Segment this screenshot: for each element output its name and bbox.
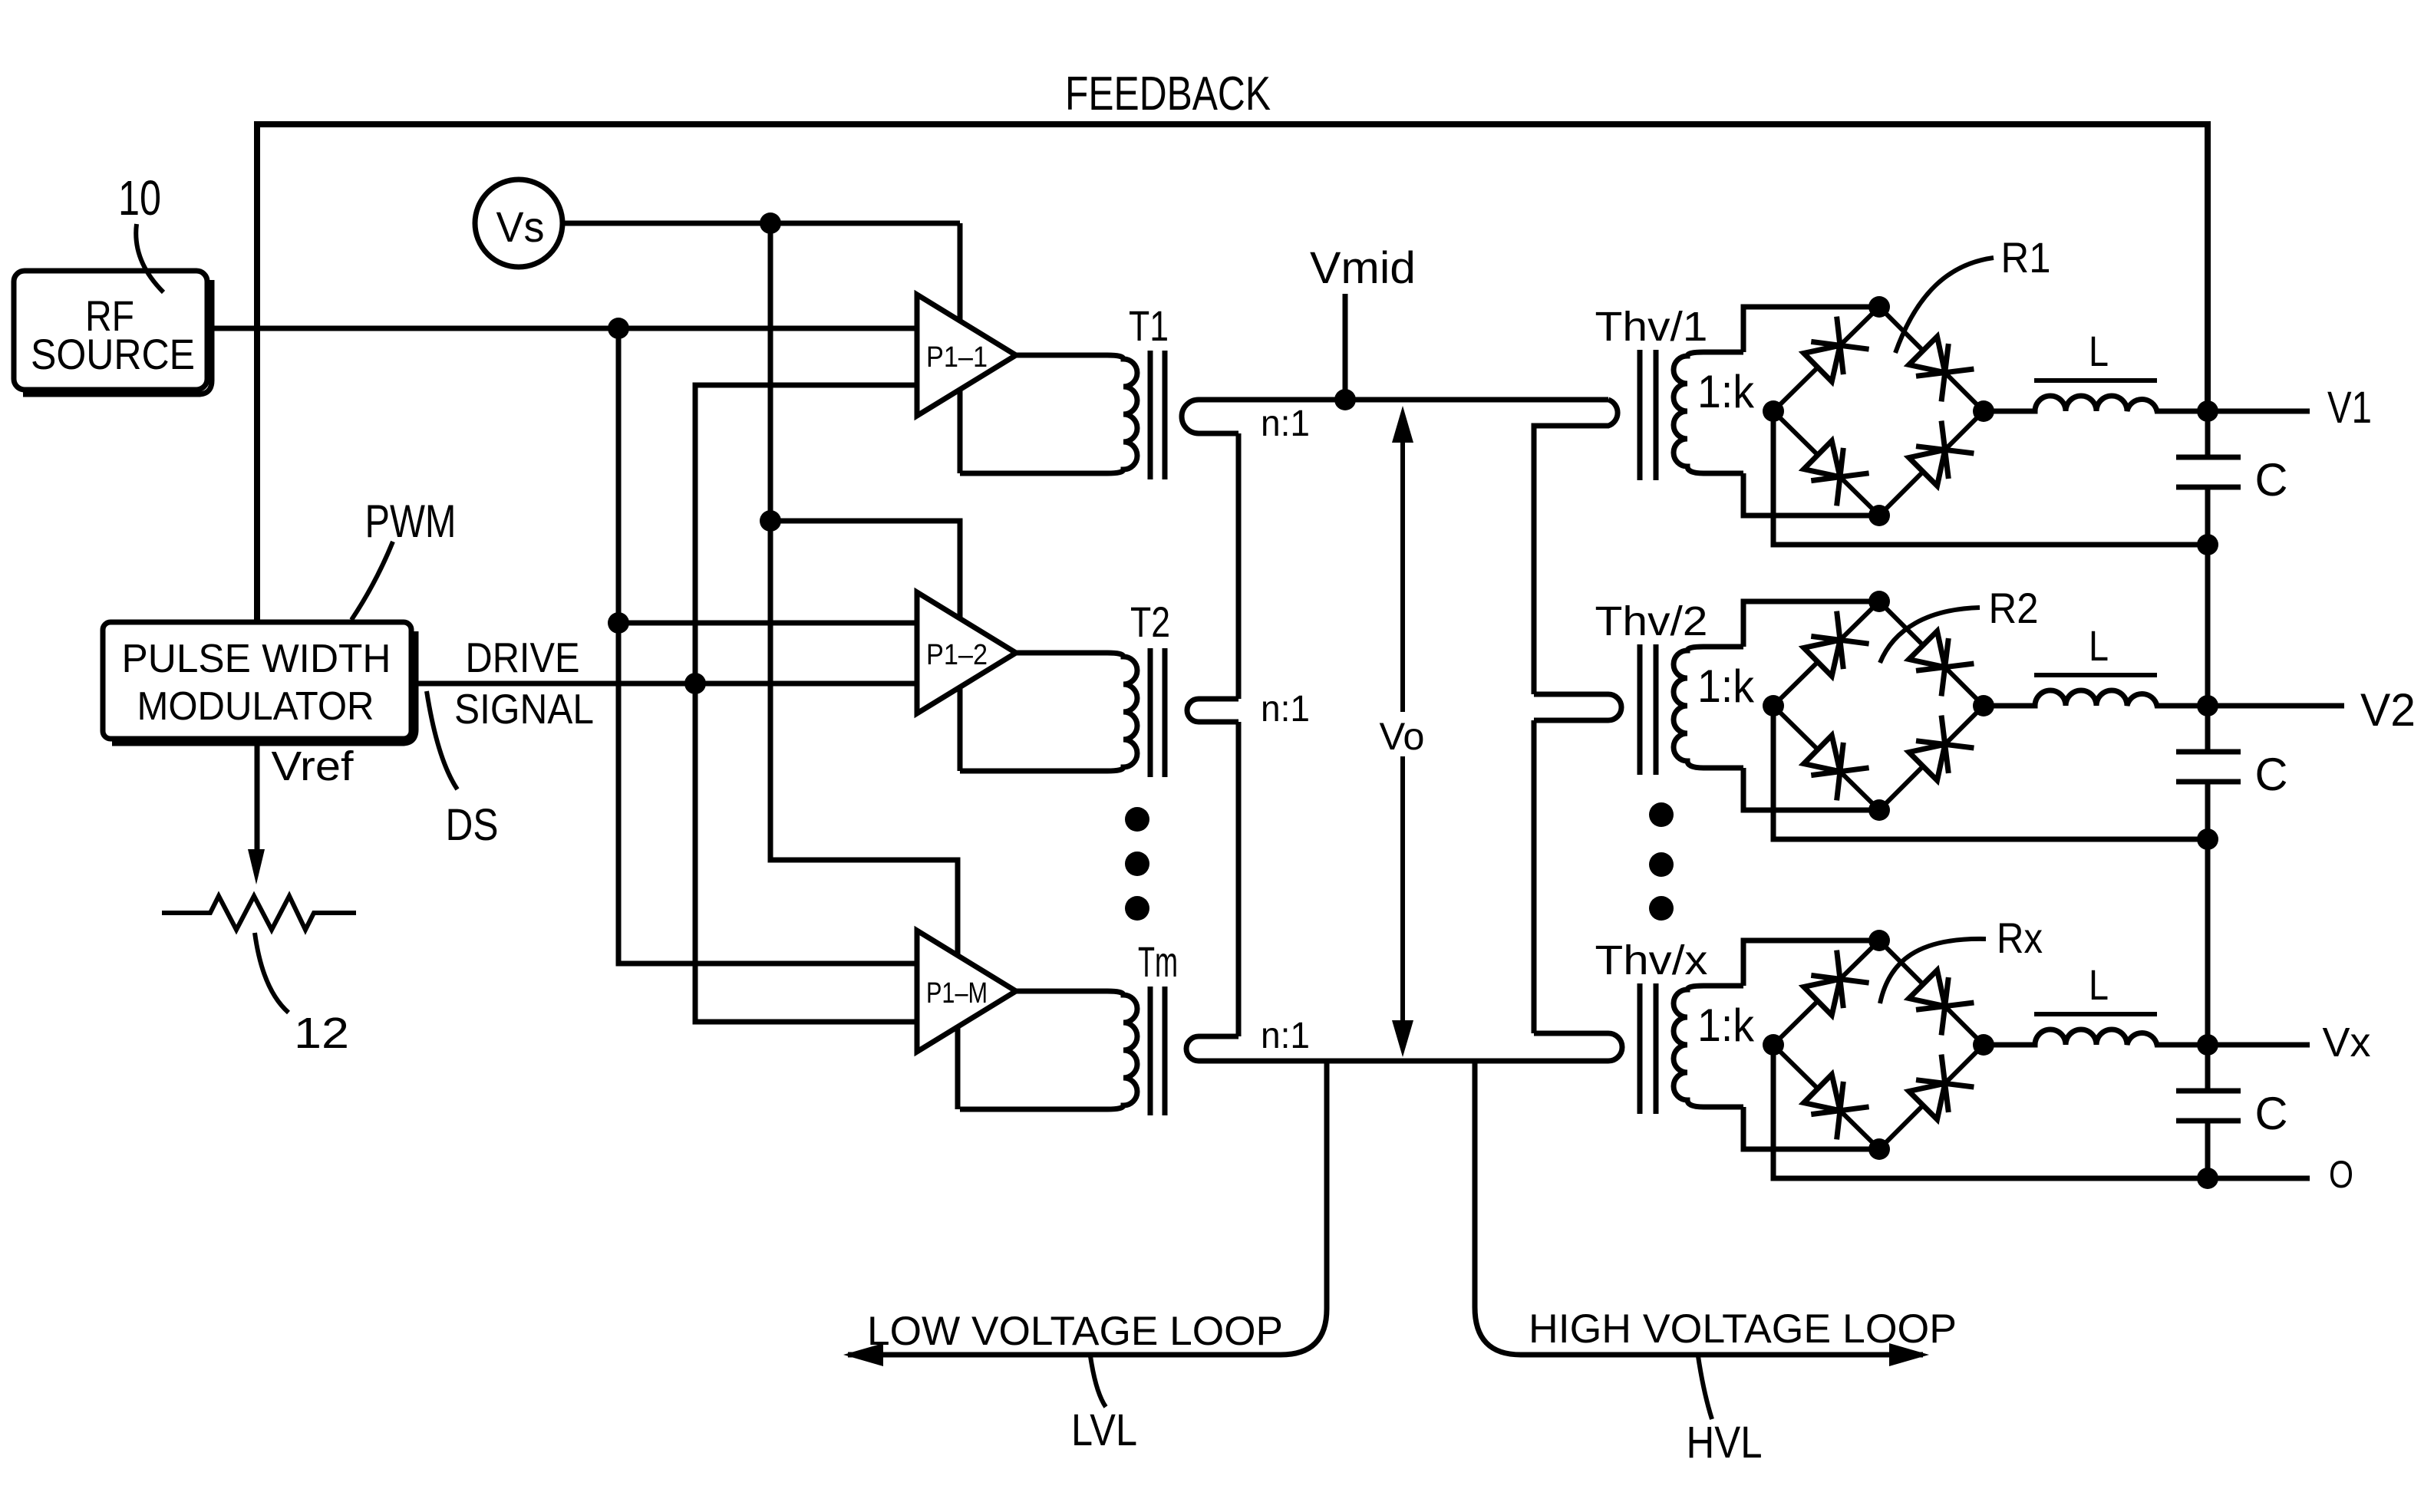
svg-text:P1–1: P1–1 [926, 341, 988, 374]
wire high voltage loop drop [1475, 1061, 1923, 1355]
dimension arrow Vo [1400, 418, 1405, 1045]
label LVL with leader [1090, 1356, 1106, 1407]
transformer Tm core [1148, 987, 1153, 1115]
node Rx right [1973, 1034, 1994, 1056]
node R2 bottom [1868, 799, 1890, 821]
diode D1 of R2 [1804, 640, 1840, 676]
svg-text:LOW VOLTAGE LOOP: LOW VOLTAGE LOOP [867, 1309, 1283, 1354]
op-amp driver P1-M [917, 931, 1016, 1052]
diode D4 of R1 [1909, 450, 1945, 486]
svg-text:Thv/1: Thv/1 [1595, 304, 1708, 350]
node R2 right [1973, 695, 1994, 716]
wire Thv/x secondary top to bridge Rx [1743, 940, 1879, 986]
diode D1 of Rx [1804, 979, 1840, 1015]
wire Vs feed to T1 primary return [770, 223, 960, 473]
transformer Thv/x primary winding (hook) [1327, 1033, 1622, 1061]
transformer Thv/x core [1638, 983, 1643, 1114]
diode D3 of R1 [1804, 441, 1840, 477]
svg-text:Tm: Tm [1138, 937, 1178, 986]
node junction Vx [2197, 1034, 2218, 1056]
wire Thv/1 secondary bottom to bridge R1 [1743, 473, 1879, 516]
svg-text:Vo: Vo [1380, 715, 1425, 758]
svg-text:HIGH VOLTAGE LOOP: HIGH VOLTAGE LOOP [1529, 1306, 1957, 1352]
transformer Thv/2 primary winding (hook) [1534, 694, 1621, 720]
svg-text:Vx: Vx [2323, 1020, 2371, 1066]
svg-text:FEEDBACK: FEEDBACK [1065, 68, 1271, 120]
svg-text:L: L [2089, 960, 2109, 1009]
arrowhead Vref [248, 849, 265, 884]
svg-text:Vmid: Vmid [1310, 243, 1416, 293]
wire Vref from PWM down to resistor [255, 739, 260, 852]
node R2 top [1868, 591, 1890, 612]
svg-text:PWM: PWM [365, 496, 457, 547]
node junction V1 [2197, 400, 2218, 422]
svg-text:HVL: HVL [1687, 1418, 1763, 1468]
svg-text:C: C [2255, 1088, 2288, 1139]
label Rx with leader [1880, 939, 1986, 1003]
svg-text:1:k: 1:k [1697, 366, 1755, 417]
svg-text:C: C [2255, 454, 2288, 506]
arrowhead HVL [1889, 1343, 1929, 1366]
node junction V2 [2197, 695, 2218, 716]
svg-text:Vref: Vref [272, 743, 355, 789]
node junction drive branch [684, 673, 706, 694]
wire Thv/2 secondary bottom to bridge R2 [1743, 768, 1879, 810]
svg-text:DS: DS [446, 800, 499, 850]
node Vmid junction [1334, 389, 1356, 410]
node junction RF tap [608, 612, 629, 634]
svg-text:V2: V2 [2360, 684, 2416, 736]
diode D3 of Rx [1804, 1075, 1840, 1111]
svg-text:DRIVE: DRIVE [466, 634, 580, 681]
diode D3 of R2 [1804, 736, 1840, 772]
wire RF branch down to P1-M input [618, 328, 917, 964]
svg-text:MODULATOR: MODULATOR [137, 684, 374, 729]
svg-text:n:1: n:1 [1261, 689, 1310, 730]
wire Vmid stub [1343, 294, 1348, 400]
inductor L (V1 filter) [1984, 396, 2208, 411]
transformer Thv/1 secondary winding (1:k) [1674, 352, 1743, 473]
transformer Tm secondary winding (n:1) hook [1186, 1036, 1327, 1061]
label R2 with leader [1880, 608, 1980, 663]
transformer T1 core [1148, 351, 1153, 479]
node Rx left [1763, 1034, 1784, 1056]
node junction Vs tap [760, 510, 781, 532]
node junction Vs rail top [760, 212, 781, 234]
diode D1 of R1 [1804, 345, 1840, 381]
wire Rx negative return to rail [1773, 1045, 2208, 1178]
wire HV loop right rail lower segment [1532, 720, 1537, 1033]
inductor L (Vx filter) [1984, 1029, 2208, 1045]
transformer Thv/x secondary winding (1:k) [1674, 986, 1743, 1107]
svg-text:V1: V1 [2327, 383, 2372, 433]
svg-text:PULSE WIDTH: PULSE WIDTH [122, 637, 391, 681]
wire LV loop bottom rail to Thv/x [1327, 1059, 1608, 1064]
node junction O [2197, 1168, 2218, 1189]
node R2 left [1763, 695, 1784, 716]
svg-text:n:1: n:1 [1261, 1016, 1310, 1056]
wire HV loop right rail upper segment [1534, 400, 1618, 694]
svg-text:SOURCE: SOURCE [31, 330, 195, 378]
node R1 left [1763, 400, 1784, 422]
wire output stub V2 [2208, 703, 2344, 709]
wire R1 negative return to rail [1773, 411, 2208, 545]
wire low voltage loop drop [848, 1061, 1327, 1355]
svg-text:C: C [2255, 749, 2288, 800]
diode D2 of R2 [1909, 631, 1945, 667]
node junction V1 return [2197, 534, 2218, 555]
transformer T2 core [1148, 648, 1153, 777]
transformer Tm primary winding [960, 991, 1137, 1109]
wire output stub Vx [2208, 1043, 2310, 1048]
ellipsis dots (more HV channels) [1649, 802, 1674, 827]
wire RF tap to P1-2 input [618, 621, 917, 626]
label Vo [1377, 712, 1430, 756]
svg-text:R1: R1 [2001, 233, 2051, 282]
wire RF source output to amplifier P1-1 input [207, 326, 917, 331]
wire Thv/2 secondary top to bridge R2 [1743, 601, 1879, 647]
wire output stub O [2208, 1176, 2310, 1181]
node junction RF/branch [608, 318, 629, 339]
label 12 with leader to resistor [255, 933, 289, 1013]
wire Vs tap to T2 primary return [770, 521, 960, 771]
svg-text:1:k: 1:k [1697, 660, 1755, 712]
svg-text:Thv/x: Thv/x [1595, 937, 1708, 983]
wire output rail segment Vx [2205, 1045, 2211, 1178]
transformer T1 primary winding [960, 355, 1137, 473]
capacitor C (V1) [2176, 455, 2241, 460]
svg-text:L: L [2089, 327, 2109, 375]
op-amp driver P1-2 [917, 592, 1016, 713]
inductor L (V2 filter) [1984, 690, 2208, 706]
transformer T1 secondary winding (n:1) hook [1182, 400, 1345, 433]
label HVL with leader [1698, 1356, 1712, 1419]
svg-text:1:k: 1:k [1697, 1000, 1755, 1051]
wire Vs rail down the amplifier column [770, 223, 958, 1109]
transformer Thv/2 secondary winding (1:k) [1674, 647, 1743, 768]
arrowhead LVL [843, 1343, 883, 1366]
wire DRIVE SIGNAL from PWM to amplifiers [411, 681, 917, 687]
wire R2 negative return to rail [1773, 706, 2208, 839]
capacitor C (Vx) [2176, 1089, 2241, 1094]
node R1 bottom [1868, 505, 1890, 526]
node R1 top [1868, 296, 1890, 318]
transformer Thv/2 core [1638, 644, 1643, 775]
transformer Thv/1 core [1638, 350, 1643, 480]
node Rx bottom [1868, 1138, 1890, 1160]
transformer T2 primary winding [960, 653, 1137, 771]
svg-text:L: L [2089, 621, 2109, 670]
diode D2 of R1 [1909, 337, 1945, 373]
label DS with leader to drive wire [427, 691, 457, 789]
svg-text:P1–2: P1–2 [926, 639, 988, 671]
capacitor C (V2) [2176, 749, 2241, 755]
svg-text:Thv/2: Thv/2 [1595, 598, 1708, 644]
wire output rail segment V1 [2205, 410, 2211, 706]
ellipsis dots (more LV channels) [1125, 807, 1149, 832]
svg-text:T2: T2 [1130, 598, 1170, 646]
transformer T2 secondary winding (n:1) hook [1187, 699, 1238, 722]
node Rx top [1868, 930, 1890, 951]
svg-text:Vs: Vs [496, 203, 545, 251]
diode D4 of Rx [1909, 1083, 1945, 1119]
svg-text:T1: T1 [1129, 301, 1169, 350]
node R1 right [1973, 400, 1994, 422]
wire output stub V1 [2208, 409, 2310, 414]
voltage source Vs [475, 180, 562, 267]
RF source box 10 [14, 271, 207, 390]
svg-text:O: O [2329, 1153, 2353, 1196]
pulse width modulator box PWM [103, 622, 411, 739]
svg-text:LVL: LVL [1071, 1405, 1137, 1455]
wire Vs to supply rail [562, 221, 770, 226]
svg-text:12: 12 [294, 1009, 349, 1058]
op-amp driver P1-1 [917, 295, 1016, 416]
resistor 12 [162, 896, 356, 930]
wire LV loop left rail lower segment [1236, 722, 1242, 1036]
diode D4 of R2 [1909, 744, 1945, 780]
label R1 with leader [1895, 258, 1994, 353]
svg-text:Rx: Rx [1997, 914, 2043, 962]
bridge rectifier Rx diamond [1773, 940, 1879, 1045]
wire LV loop top rail to Thv/1 [1345, 397, 1608, 403]
bridge rectifier R1 diamond [1773, 307, 1879, 411]
wire FEEDBACK net (top rail, from PWM input up across to output rail) [257, 124, 2208, 622]
svg-text:R2: R2 [1989, 584, 2039, 632]
wire drive-signal branch to P1-1 and P1-M lower inputs [695, 385, 917, 1022]
diode D2 of Rx [1909, 970, 1945, 1006]
svg-text:10: 10 [118, 170, 161, 226]
wire LV loop left rail upper segment [1236, 433, 1242, 699]
svg-text:P1–M: P1–M [926, 977, 988, 1010]
wire Thv/x secondary bottom to bridge Rx [1743, 1107, 1879, 1149]
bridge rectifier R2 diamond [1773, 601, 1879, 706]
wire Thv/1 secondary top to bridge R1 [1743, 307, 1879, 352]
svg-text:n:1: n:1 [1261, 404, 1310, 444]
wire output rail segment V2 [2205, 706, 2211, 1045]
node junction V2 return [2197, 828, 2218, 850]
svg-text:SIGNAL: SIGNAL [454, 685, 594, 733]
